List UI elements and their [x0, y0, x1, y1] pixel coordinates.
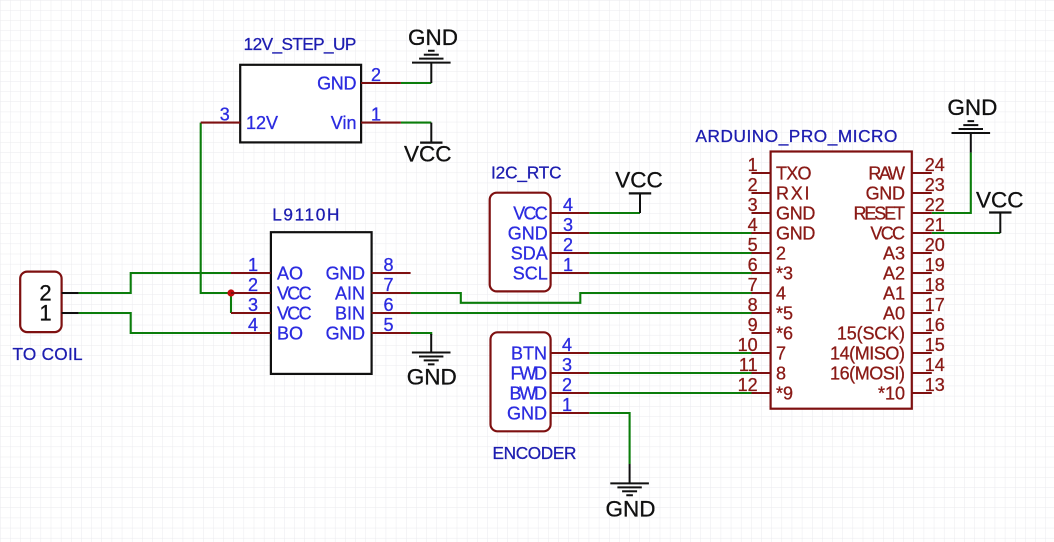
wire: I2C_RTC SDA to ARDUINO pin5 [589, 252, 751, 254]
svg-text:VCC: VCC [404, 141, 452, 166]
svg-text:7: 7 [748, 275, 758, 295]
pin 1 SCL of I2C_RTC [513, 255, 590, 283]
wire: ENCODER FWD to ARDUINO pin11 [589, 372, 751, 374]
svg-text:1: 1 [563, 255, 573, 275]
svg-text:19: 19 [925, 255, 945, 275]
pin 3 12V of 12V_STEP_UP [201, 105, 278, 133]
svg-text:GND: GND [408, 25, 458, 50]
svg-text:TO COIL: TO COIL [12, 344, 82, 364]
svg-text:VCC: VCC [513, 203, 548, 223]
svg-text:9: 9 [748, 315, 758, 335]
svg-text:15(SCK): 15(SCK) [837, 323, 905, 343]
svg-text:8: 8 [748, 295, 758, 315]
svg-text:10: 10 [738, 335, 758, 355]
svg-text:FWD: FWD [511, 363, 548, 383]
svg-text:AO: AO [277, 263, 303, 283]
svg-text:15: 15 [925, 335, 945, 355]
pin 3 GND of ARDUINO_PRO_MICRO [748, 195, 816, 223]
svg-text:2: 2 [748, 175, 758, 195]
svg-text:1: 1 [39, 301, 51, 326]
pin 4 VCC of I2C_RTC [513, 195, 589, 223]
svg-text:BTN: BTN [511, 343, 547, 363]
pin 11 8 of ARDUINO_PRO_MICRO [739, 355, 786, 383]
svg-text:3: 3 [248, 295, 258, 315]
svg-text:BO: BO [277, 323, 303, 343]
svg-text:7: 7 [776, 343, 786, 363]
power symbol VCC (at 12V_STEP_UP Vin) [404, 123, 452, 167]
pin 2 SDA of I2C_RTC [511, 235, 590, 263]
svg-text:RXI: RXI [776, 183, 810, 203]
wire: ENCODER GND to ground symbol [589, 413, 629, 464]
svg-text:2: 2 [371, 65, 381, 85]
wire: VCC pin2 to VCC pin3 [230, 292, 232, 313]
svg-text:A2: A2 [883, 263, 905, 283]
connector J2 ENCODER [491, 332, 577, 463]
svg-text:*9: *9 [776, 383, 793, 403]
pin 9 *6 of ARDUINO_PRO_MICRO [748, 315, 793, 343]
wire: 12V_STEP_UP Vin to VCC [401, 122, 431, 124]
svg-text:BWD: BWD [510, 383, 548, 403]
pin 12 *9 of ARDUINO_PRO_MICRO [738, 375, 793, 403]
pin 4 BTN of ENCODER [511, 335, 589, 363]
svg-text:A3: A3 [883, 243, 905, 263]
pin 8 GND of L9110H [326, 255, 411, 283]
svg-text:TXO: TXO [776, 163, 812, 183]
svg-text:VCC: VCC [976, 188, 1024, 213]
svg-text:GND: GND [326, 263, 365, 283]
pin 24 RAW of ARDUINO_PRO_MICRO [868, 155, 944, 183]
svg-text:14(MISO): 14(MISO) [830, 343, 905, 363]
svg-text:GND: GND [866, 183, 905, 203]
svg-text:11: 11 [739, 355, 758, 375]
svg-text:17: 17 [925, 295, 945, 315]
svg-text:1: 1 [562, 395, 572, 415]
wire: ARDUINO VCC pin21 to VCC symbol [932, 232, 1001, 234]
svg-text:GND: GND [326, 323, 365, 343]
power symbol VCC (at I2C_RTC) [615, 167, 663, 213]
svg-text:*6: *6 [776, 323, 793, 343]
svg-text:24: 24 [925, 155, 945, 175]
svg-text:23: 23 [925, 175, 945, 195]
wire: 12V_STEP_UP GND to ground [401, 82, 431, 84]
svg-text:6: 6 [384, 295, 394, 315]
svg-text:2: 2 [776, 243, 786, 263]
wire: L9110H GND pin5 to ground [411, 333, 432, 335]
wire: L9110H BIN to ARDUINO pin8 [411, 312, 752, 314]
pin 1 Vin of 12V_STEP_UP [331, 105, 401, 133]
svg-text:GND: GND [407, 364, 457, 389]
svg-text:3: 3 [220, 105, 230, 125]
svg-text:5: 5 [384, 315, 394, 335]
svg-text:12V: 12V [246, 113, 278, 133]
connector J1 TO COIL [12, 272, 82, 365]
svg-text:RAW: RAW [868, 163, 905, 183]
svg-text:12: 12 [738, 375, 758, 395]
pin 14 16(MOSI) of ARDUINO_PRO_MICRO [830, 355, 945, 383]
pin 7 AIN of L9110H [335, 275, 411, 303]
wire: TO COIL pin2 to L9110H AO [79, 273, 231, 293]
svg-text:VCC: VCC [277, 303, 312, 323]
svg-text:13: 13 [925, 375, 945, 395]
svg-text:A0: A0 [883, 303, 905, 323]
pin 8 *5 of ARDUINO_PRO_MICRO [748, 295, 793, 323]
component U2 L9110H [271, 205, 372, 374]
svg-text:3: 3 [563, 215, 573, 235]
svg-text:I2C_RTC: I2C_RTC [491, 163, 562, 183]
svg-text:RESET: RESET [854, 203, 906, 223]
svg-text:VCC: VCC [277, 283, 312, 303]
svg-text:20: 20 [925, 235, 945, 255]
wire: L9110H AIN to ARDUINO pin7 [411, 293, 752, 303]
pin 23 GND of ARDUINO_PRO_MICRO [866, 175, 945, 203]
wire: I2C_RTC VCC to VCC symbol [589, 212, 640, 214]
pin 1 GND of ENCODER [507, 395, 589, 423]
svg-text:SDA: SDA [511, 243, 548, 263]
pin 6 BIN of L9110H [335, 295, 411, 323]
pin 13 *10 of ARDUINO_PRO_MICRO [878, 375, 945, 403]
svg-text:3: 3 [562, 355, 572, 375]
pin 10 7 of ARDUINO_PRO_MICRO [738, 335, 786, 363]
svg-text:2: 2 [248, 275, 258, 295]
svg-text:22: 22 [925, 195, 945, 215]
wire: I2C_RTC GND to ARDUINO pin4 [589, 232, 751, 234]
component U4 ARDUINO_PRO_MICRO [696, 126, 912, 409]
pin 19 A2 of ARDUINO_PRO_MICRO [883, 255, 945, 283]
svg-text:16(MOSI): 16(MOSI) [830, 363, 905, 383]
svg-text:2: 2 [563, 235, 573, 255]
ground symbol GND (top right, ARDUINO RESET) [947, 95, 997, 153]
wire: 12V_STEP_UP 12V to L9110H VCC pin2 [201, 123, 232, 293]
svg-text:GND: GND [776, 223, 815, 243]
pin 2 RXI of ARDUINO_PRO_MICRO [748, 175, 810, 203]
svg-text:GND: GND [776, 203, 815, 223]
ground symbol GND (under L9110H pin5) [407, 334, 457, 389]
svg-text:*5: *5 [776, 303, 793, 323]
pin 17 A0 of ARDUINO_PRO_MICRO [883, 295, 945, 323]
svg-text:BIN: BIN [335, 303, 365, 323]
pin 7 4 of ARDUINO_PRO_MICRO [748, 275, 786, 303]
pin 15 14(MISO) of ARDUINO_PRO_MICRO [830, 335, 945, 363]
svg-text:VCC: VCC [615, 167, 663, 192]
svg-text:A1: A1 [883, 283, 905, 303]
svg-text:*3: *3 [776, 263, 793, 283]
pin 5 GND of L9110H [326, 315, 411, 343]
svg-text:1: 1 [371, 105, 381, 125]
svg-text:5: 5 [748, 235, 758, 255]
svg-text:2: 2 [562, 375, 572, 395]
svg-text:6: 6 [748, 255, 758, 275]
pin 5 2 of ARDUINO_PRO_MICRO [748, 235, 786, 263]
wire: ARDUINO RESET pin22 to ground symbol [932, 153, 971, 213]
ground symbol GND (under ENCODER) [606, 464, 656, 521]
svg-text:GND: GND [317, 73, 356, 93]
pin 2 of TO COIL [39, 281, 78, 306]
svg-text:4: 4 [776, 283, 786, 303]
pin 2 VCC of L9110H [231, 275, 312, 303]
pin 16 15(SCK) of ARDUINO_PRO_MICRO [837, 315, 945, 343]
svg-text:16: 16 [925, 315, 945, 335]
svg-text:4: 4 [563, 195, 573, 215]
pin 3 VCC of L9110H [231, 295, 312, 323]
wire: I2C_RTC SCL to ARDUINO pin6 [589, 272, 751, 274]
svg-text:18: 18 [925, 275, 945, 295]
svg-text:GND: GND [606, 496, 656, 521]
svg-text:ENCODER: ENCODER [493, 443, 577, 463]
pin 2 GND of 12V_STEP_UP [317, 65, 401, 93]
svg-text:21: 21 [925, 215, 945, 235]
svg-text:14: 14 [925, 355, 945, 375]
svg-text:4: 4 [248, 315, 258, 335]
svg-text:12V_STEP_UP: 12V_STEP_UP [244, 34, 357, 54]
wire: TO COIL pin1 to L9110H BO [79, 313, 231, 333]
pin 4 GND of ARDUINO_PRO_MICRO [748, 215, 816, 243]
pin 1 TXO of ARDUINO_PRO_MICRO [748, 155, 812, 183]
svg-text:1: 1 [748, 155, 758, 175]
ground symbol GND (top, at 12V_STEP_UP) [408, 25, 458, 83]
svg-text:SCL: SCL [513, 263, 548, 283]
svg-text:4: 4 [562, 335, 572, 355]
svg-text:8: 8 [776, 363, 786, 383]
pin 3 FWD of ENCODER [511, 355, 590, 383]
svg-text:3: 3 [748, 195, 758, 215]
svg-text:1: 1 [248, 255, 258, 275]
svg-text:GND: GND [508, 223, 548, 243]
svg-text:*10: *10 [878, 383, 905, 403]
pin 1 AO of L9110H [231, 255, 303, 283]
svg-text:8: 8 [384, 255, 394, 275]
pin 22 RESET of ARDUINO_PRO_MICRO [854, 195, 945, 223]
svg-text:4: 4 [748, 215, 758, 235]
pin 2 BWD of ENCODER [510, 375, 590, 403]
svg-text:7: 7 [384, 275, 394, 295]
power symbol VCC (right, ARDUINO VCC) [976, 188, 1024, 233]
svg-text:GND: GND [947, 95, 997, 120]
wire: ENCODER BTN to ARDUINO pin10 [589, 352, 751, 354]
svg-text:AIN: AIN [335, 283, 365, 303]
pin 18 A1 of ARDUINO_PRO_MICRO [883, 275, 945, 303]
pin 6 *3 of ARDUINO_PRO_MICRO [748, 255, 793, 283]
svg-text:GND: GND [507, 403, 547, 423]
svg-text:Vin: Vin [331, 113, 357, 133]
pin 4 BO of L9110H [231, 315, 303, 343]
pin 1 of TO COIL [39, 301, 78, 326]
component U3 I2C_RTC [490, 163, 562, 292]
component U1 12V_STEP_UP [240, 34, 361, 143]
svg-text:ARDUINO_PRO_MICRO: ARDUINO_PRO_MICRO [696, 126, 898, 146]
wire: ENCODER BWD to ARDUINO pin12 [589, 392, 751, 394]
junction: VCC node at L9110H pin 2 [227, 289, 234, 296]
pin 3 GND of I2C_RTC [508, 215, 590, 243]
pin 20 A3 of ARDUINO_PRO_MICRO [883, 235, 945, 263]
pin 21 VCC of ARDUINO_PRO_MICRO [870, 215, 944, 243]
svg-text:VCC: VCC [870, 223, 905, 243]
